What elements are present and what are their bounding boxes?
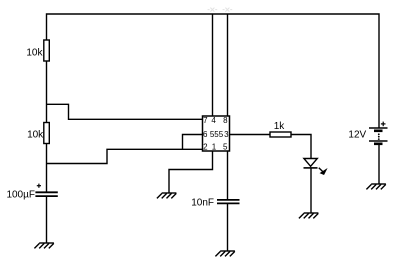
svg-text:10k: 10k xyxy=(27,129,44,140)
svg-text:100µF: 100µF xyxy=(6,190,35,201)
svg-text:6: 6 xyxy=(203,130,208,139)
svg-text:8: 8 xyxy=(223,116,228,125)
svg-text:555: 555 xyxy=(210,130,224,139)
svg-text:3: 3 xyxy=(224,130,229,139)
svg-text:10nF: 10nF xyxy=(191,197,214,208)
svg-text:10k: 10k xyxy=(26,47,43,58)
svg-text:1k: 1k xyxy=(274,121,286,132)
svg-text:5: 5 xyxy=(223,142,228,151)
svg-text:1: 1 xyxy=(212,142,217,151)
svg-text:4: 4 xyxy=(211,116,216,125)
svg-text:7: 7 xyxy=(203,116,208,125)
svg-text:12V: 12V xyxy=(348,130,366,141)
svg-text:2: 2 xyxy=(203,142,208,151)
